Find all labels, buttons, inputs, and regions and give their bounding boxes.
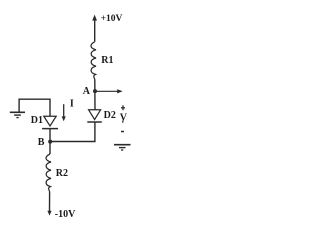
wire R2 to -10V arrow	[49, 192, 51, 212]
ground symbol left bar2	[14, 114, 21, 116]
wire D2 to corner to node B	[50, 122, 95, 142]
svg-text:R2: R2	[56, 168, 68, 179]
svg-text:I: I	[70, 98, 74, 109]
V polarity tick below V	[122, 120, 124, 122]
svg-text:R1: R1	[101, 55, 113, 66]
label plus	[121, 105, 125, 110]
wire R1 to node A	[94, 80, 96, 110]
resistor R2	[46, 154, 51, 192]
svg-text:D2: D2	[104, 110, 116, 121]
svg-text:-10V: -10V	[55, 209, 76, 220]
resistor R1	[91, 42, 96, 80]
ground symbol left bar3	[16, 117, 18, 119]
current I arrow	[63, 104, 65, 117]
diode D1	[44, 116, 56, 126]
node A dot	[93, 89, 97, 93]
svg-text:+10V: +10V	[101, 14, 123, 24]
ground wire top-left	[19, 99, 50, 116]
ground symbol right bar1	[114, 144, 131, 146]
node B dot	[48, 140, 52, 144]
label minus	[121, 131, 124, 133]
node A output arrow wire	[95, 90, 119, 92]
ground symbol right bar3	[121, 149, 123, 151]
svg-text:D1: D1	[31, 115, 43, 126]
node A arrowhead	[117, 89, 123, 93]
+10V supply arrow	[94, 19, 96, 42]
wire D1 through node B to R2	[49, 129, 51, 154]
svg-text:V: V	[120, 112, 128, 123]
diode D2	[89, 110, 101, 120]
svg-text:A: A	[83, 86, 91, 97]
ground symbol left bar1	[10, 111, 25, 113]
ground symbol right bar2	[119, 147, 126, 149]
svg-text:B: B	[38, 137, 45, 148]
